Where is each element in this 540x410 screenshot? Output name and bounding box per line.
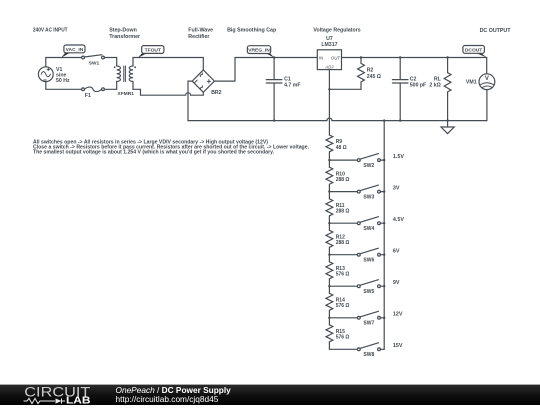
wire ladder R13-R14	[328, 286, 330, 293]
svg-text:DCOUT: DCOUT	[465, 47, 482, 53]
annotation "Full-Wave Rectifier"	[188, 28, 213, 40]
junction ladder tap 4.5V	[328, 222, 330, 224]
resistor R9	[326, 135, 347, 160]
svg-text:SW3: SW3	[363, 194, 374, 200]
svg-text:SW4: SW4	[363, 226, 374, 232]
svg-text:Step-Down: Step-Down	[109, 28, 137, 34]
svg-text:VAC_IN: VAC_IN	[66, 47, 84, 53]
junction ladder tap 9V	[328, 285, 330, 287]
voltage source V1	[38, 67, 70, 84]
junction right rail 9V	[383, 285, 385, 287]
svg-text:SW8: SW8	[363, 352, 374, 358]
switch SW4	[357, 217, 380, 232]
junction C2 top	[399, 56, 401, 58]
junction RL bottom / ground	[446, 119, 448, 121]
wire V1 bottom to F1	[46, 82, 82, 90]
svg-text:R2: R2	[367, 68, 374, 74]
switch SW1 (closed)	[82, 55, 105, 67]
junction right rail 3V	[383, 190, 385, 192]
ground rail (with hop over ADJ line)	[188, 118, 487, 120]
wire U7 ADJ down to divider ladder	[328, 70, 330, 135]
switch SW6	[357, 248, 380, 263]
svg-text:V: V	[485, 76, 489, 82]
junction right rail 1.5V	[383, 159, 385, 161]
wire U7 OUT to DC output rail	[342, 57, 487, 59]
junction ladder tap 3V	[328, 190, 330, 192]
svg-text:SW1: SW1	[89, 60, 100, 66]
svg-text:6V: 6V	[393, 249, 400, 255]
wire SW6 to right rail	[380, 254, 384, 256]
wire SW3 to right rail	[380, 191, 384, 193]
svg-text:SW5: SW5	[363, 289, 374, 295]
svg-text:4.5V: 4.5V	[393, 217, 404, 223]
wire tap to SW7	[329, 317, 357, 319]
svg-text:3V: 3V	[393, 185, 400, 191]
junction right rail 4.5V	[383, 222, 385, 224]
node flag DCOUT	[463, 46, 487, 58]
svg-text:576 Ω: 576 Ω	[336, 303, 350, 309]
svg-text:VM1: VM1	[466, 80, 477, 86]
ground symbol	[441, 121, 454, 134]
svg-text:U7: U7	[326, 36, 333, 42]
svg-text:TFOUT: TFOUT	[145, 47, 161, 53]
svg-text:48 Ω: 48 Ω	[336, 145, 347, 151]
svg-text:SW6: SW6	[363, 257, 374, 263]
wire ladder R9-R10	[328, 160, 330, 167]
junction ladder tap 12V	[328, 317, 330, 319]
wire transformer secondary top to bridge top	[133, 58, 203, 70]
svg-text:Big Smoothing Cap: Big Smoothing Cap	[227, 28, 277, 34]
wire bridge left corner to ground rail	[188, 81, 192, 121]
note text block	[33, 139, 310, 155]
resistor R14	[326, 293, 349, 318]
switch SW7	[357, 311, 380, 326]
node flag VREG_IN	[247, 46, 274, 58]
svg-text:288 Ω: 288 Ω	[336, 240, 350, 246]
fuse F1	[82, 87, 105, 99]
svg-text:Transformer: Transformer	[109, 34, 140, 40]
svg-text:288 Ω: 288 Ω	[336, 177, 350, 183]
svg-text:LM317: LM317	[321, 42, 337, 48]
svg-text:http://circuitlab.com/cjq8d45: http://circuitlab.com/cjq8d45	[116, 394, 219, 404]
wire SW1 to transformer primary top	[104, 58, 116, 67]
svg-text:OUT: OUT	[331, 55, 340, 60]
wire SW5 to right rail	[380, 285, 384, 287]
switch SW3	[357, 185, 380, 200]
wire tap to SW3	[329, 191, 357, 193]
svg-text:240V AC INPUT: 240V AC INPUT	[33, 28, 68, 34]
svg-text:576 Ω: 576 Ω	[336, 335, 350, 341]
svg-text:288 Ω: 288 Ω	[336, 209, 350, 215]
transformer XFMR1	[114, 66, 136, 97]
junction ADJ/R2	[328, 88, 330, 90]
svg-text:Full-Wave: Full-Wave	[188, 28, 213, 34]
svg-text:VREG_IN: VREG_IN	[248, 47, 270, 53]
wire tap to SW2	[329, 159, 357, 161]
svg-text:9V: 9V	[393, 280, 400, 286]
footer	[0, 384, 540, 406]
wire tap to SW5	[329, 285, 357, 287]
wire SW7 to right rail	[380, 317, 384, 319]
load resistor RL	[429, 58, 451, 121]
svg-text:500 pF: 500 pF	[410, 83, 426, 89]
wire tap to SW6	[329, 254, 357, 256]
wire tap to SW4	[329, 222, 357, 224]
resistor R12	[326, 230, 349, 254]
svg-text:LAB: LAB	[66, 396, 91, 405]
svg-text:1.5V: 1.5V	[393, 154, 404, 160]
wire F1 to transformer primary bottom	[104, 82, 116, 90]
smoothing capacitor C1	[266, 58, 300, 121]
svg-text:50 Hz: 50 Hz	[56, 78, 70, 84]
wire ladder R11-R12	[328, 223, 330, 230]
resistor R11	[326, 199, 349, 223]
switch SW8	[357, 343, 380, 358]
wire ladder R12-R13	[328, 255, 330, 262]
junction C2 bottom	[399, 119, 401, 121]
svg-text:ADJ: ADJ	[324, 65, 334, 70]
svg-text:12V: 12V	[393, 312, 403, 318]
junction ladder tap 6V	[328, 254, 330, 256]
svg-text:F1: F1	[85, 93, 91, 99]
annotation "Step-Down Transformer"	[109, 28, 140, 40]
junction C1 top	[273, 56, 275, 58]
wire bridge + output to top rail	[214, 58, 317, 82]
svg-text:XFMR1: XFMR1	[117, 91, 134, 97]
svg-text:4.7 mF: 4.7 mF	[284, 83, 300, 89]
svg-text:245 Ω: 245 Ω	[367, 74, 381, 80]
wire SW2 to right rail	[380, 159, 384, 161]
voltmeter VM1	[466, 58, 495, 121]
resistor R15	[326, 325, 357, 350]
wire SW8 to right rail end	[380, 348, 384, 350]
bridge rectifier BR2	[192, 70, 221, 96]
regulator U7 LM317	[317, 36, 341, 70]
svg-text:Voltage Regulators: Voltage Regulators	[313, 28, 360, 34]
switch SW5	[357, 280, 380, 295]
junction RL top	[446, 56, 448, 58]
svg-text:SW2: SW2	[363, 163, 374, 169]
svg-text:576 Ω: 576 Ω	[336, 272, 350, 278]
capacitor C2	[392, 58, 426, 121]
wire transformer secondary bottom to bridge bottom (with hop)	[133, 82, 203, 96]
svg-text:DC OUTPUT: DC OUTPUT	[480, 28, 512, 34]
resistor R10	[326, 167, 349, 191]
svg-text:Rectifier: Rectifier	[188, 34, 209, 40]
wire ladder R14-R15	[328, 318, 330, 325]
wire right return rail	[383, 121, 385, 350]
svg-text:SW7: SW7	[363, 321, 374, 327]
node flag TFOUT	[138, 46, 164, 58]
switch SW2	[357, 154, 380, 169]
junction C1 bottom	[273, 119, 275, 121]
junction right rail at ground	[383, 119, 385, 121]
junction ladder tap 1.5V	[328, 159, 330, 161]
resistor R2	[329, 58, 381, 90]
svg-text:BR2: BR2	[211, 90, 221, 96]
resistor R13	[326, 262, 349, 286]
svg-text:The smallest output voltage is: The smallest output voltage is about 1.2…	[33, 150, 275, 156]
svg-text:2 kΩ: 2 kΩ	[429, 83, 440, 89]
wire ladder R10-R11	[328, 192, 330, 199]
wire V1 top to SW1	[46, 58, 82, 67]
svg-text:15V: 15V	[393, 343, 403, 349]
junction right rail 12V	[383, 317, 385, 319]
wire SW4 to right rail	[380, 222, 384, 224]
node flag VAC_IN	[61, 45, 85, 58]
junction right rail 6V	[383, 254, 385, 256]
junction R2 top	[360, 56, 362, 58]
